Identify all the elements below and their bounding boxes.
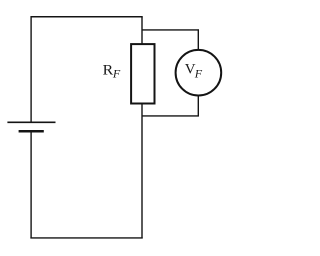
voltmeter V_F body	[176, 50, 222, 96]
node A: top junction to voltmeter branch	[142, 29, 199, 31]
battery B1: short plate (negative terminal)	[19, 130, 44, 133]
node B: bottom junction from voltmeter branch	[142, 115, 199, 117]
battery B1: long plate (positive terminal)	[7, 121, 55, 123]
wire: right vertical from resistor bottom to bottom wire	[141, 104, 143, 239]
resistor R_F body	[131, 44, 154, 103]
svg-text:R: R	[103, 63, 114, 79]
svg-text:F: F	[112, 67, 121, 81]
svg-text:F: F	[194, 66, 203, 80]
wire: voltmeter branch bottom vertical	[197, 96, 199, 117]
wire: left vertical lower (battery - terminal down to bottom wire)	[30, 131, 32, 238]
wire: top horizontal from battery to resistor branch	[31, 16, 143, 18]
wire: left vertical upper (battery + terminal up to top wire)	[30, 16, 32, 122]
wire: voltmeter branch top vertical	[197, 29, 199, 50]
wire: bottom horizontal	[30, 237, 142, 239]
wire: right vertical from top wire down to resistor top	[141, 17, 143, 44]
